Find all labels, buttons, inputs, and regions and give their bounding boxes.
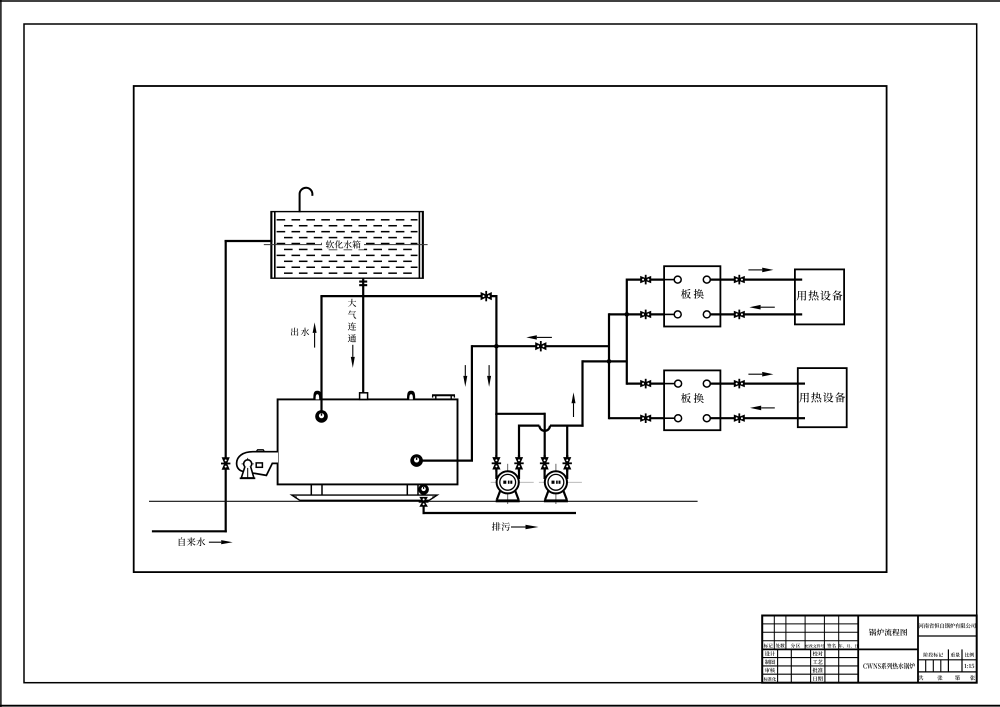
boiler safety valve dome (left) bbox=[313, 391, 321, 400]
tank water level line bbox=[264, 244, 428, 246]
arrow: HX1 return flow (left) bbox=[749, 305, 774, 310]
valve on HX2 lower-left line bbox=[640, 413, 651, 423]
heat exchanger HX1 box bbox=[664, 266, 720, 326]
tank shell (softened water tank) bbox=[271, 212, 423, 279]
wire: HX2 to equipment supply line bbox=[710, 383, 805, 385]
label 排污 bbox=[492, 522, 510, 531]
wire: supply manifold vertical bbox=[626, 279, 628, 385]
arrow: HX1 supply flow (right) bbox=[748, 268, 773, 273]
boiler outlet port (black) bbox=[315, 410, 328, 423]
label 大气连通 (vertical) bbox=[348, 299, 356, 343]
tank label 软化水箱 bbox=[322, 240, 364, 250]
wire: manifold link horizontal bbox=[583, 360, 627, 362]
title block revision table bbox=[762, 616, 858, 650]
wire: HX2 lower-left line bbox=[609, 417, 675, 419]
wire: pump suction header bbox=[495, 413, 544, 415]
HX1 ports bbox=[664, 276, 720, 318]
equipment box EQ2 用热设备 bbox=[798, 368, 847, 427]
boiler shell bbox=[278, 399, 458, 484]
valve on HX1 return line bbox=[734, 310, 745, 320]
pump P2 (circulating pump) bbox=[539, 455, 582, 504]
wire: HX1 upper-left line bbox=[627, 279, 674, 281]
junction: link x return manifold bbox=[607, 359, 612, 364]
wire: supply header horizontal bbox=[320, 295, 497, 297]
wire: pump discharge header with crossover bridge bbox=[519, 425, 584, 472]
arrow: tap water flow (right) bbox=[209, 540, 233, 544]
wire: blowdown drop bbox=[423, 506, 425, 515]
boiler top flanged nozzle bbox=[432, 395, 455, 399]
valve on tap water riser bbox=[221, 457, 230, 469]
wire: boiler inlet horizontal bbox=[417, 460, 473, 462]
arrow: HX2 return flow (left) bbox=[750, 406, 775, 411]
arrow: supply flow (up) bbox=[313, 322, 317, 347]
arrow: down flow beside supply drop bbox=[487, 365, 491, 387]
pump P2 suction valve bbox=[540, 457, 549, 469]
burner control box bbox=[256, 463, 262, 467]
title block company name bbox=[919, 623, 976, 628]
boiler base plate bbox=[292, 495, 437, 500]
valve on HX2 upper-left line bbox=[640, 379, 651, 389]
wire: boiler outlet riser 出水 bbox=[320, 296, 322, 416]
boiler return inlet port (black) bbox=[410, 454, 423, 467]
HX1 label 板换 bbox=[681, 289, 704, 299]
boiler blowdown port (black) bbox=[418, 484, 429, 495]
heat exchanger HX2 box bbox=[664, 370, 720, 430]
boiler safety valve dome (right) bbox=[407, 391, 415, 400]
wire: HX1 to equipment supply line bbox=[710, 279, 802, 281]
wire: discharge riser to manifolds bbox=[581, 360, 583, 426]
wire: return header horizontal bbox=[472, 345, 609, 347]
diagram boundary box bbox=[134, 86, 887, 572]
wire: pump1 suction drop bbox=[495, 414, 497, 472]
wire: HX1 lower-left line bbox=[609, 313, 674, 315]
title block drawing title 锅炉流程图 bbox=[869, 629, 907, 636]
arrow: blowdown flow (right) bbox=[511, 525, 539, 529]
tank bottom drain fitting bbox=[359, 281, 367, 287]
vent hook pipe on tank top bbox=[300, 188, 313, 213]
wire: atmospheric vent line (tank to boiler) bbox=[362, 278, 364, 393]
blowdown valve bbox=[419, 497, 429, 507]
valve on HX2 supply line bbox=[734, 379, 745, 389]
valve on return header bbox=[535, 341, 546, 351]
ground line bbox=[149, 500, 698, 502]
wire: pump2 suction drop bbox=[544, 413, 546, 472]
equipment box EQ1 用热设备 bbox=[795, 269, 844, 324]
wire: supply drop to pump suction bbox=[495, 295, 497, 415]
label 出水 bbox=[291, 328, 309, 336]
title block product name CWNS系列热水锅炉 bbox=[863, 663, 915, 669]
burner stand bbox=[240, 467, 256, 479]
valve on HX1 supply line bbox=[734, 275, 745, 285]
arrow: down flow beside return drop bbox=[463, 365, 467, 387]
junction: supply drop x return header bbox=[494, 344, 499, 349]
arrow: return flow (left) bbox=[526, 335, 552, 339]
tank water hatching bbox=[277, 220, 418, 273]
wire: HX2 upper-left line bbox=[627, 383, 675, 385]
arrow: up flow beside discharge riser bbox=[572, 392, 576, 417]
valve on HX1 upper-left line bbox=[640, 275, 651, 285]
burner body bbox=[237, 450, 278, 476]
wire: equipment to HX1 return line bbox=[710, 313, 802, 315]
junction: HX1 lower line x supply manifold bbox=[625, 312, 630, 317]
wire: equipment to HX2 return line bbox=[710, 417, 805, 419]
valve on supply header bbox=[481, 291, 492, 301]
arrow: vent flow (down) bbox=[351, 345, 355, 368]
arrow: HX2 supply flow (right) bbox=[748, 372, 773, 377]
valve on HX2 return line bbox=[734, 413, 745, 423]
wire: tap water top run into tank bbox=[225, 240, 273, 242]
wire: return manifold vertical bbox=[608, 313, 610, 419]
pump P1 suction valve bbox=[492, 457, 501, 469]
pump P1 discharge valve bbox=[514, 457, 523, 469]
wire: blowdown run to drain bbox=[423, 512, 577, 514]
boiler support feet bbox=[311, 484, 418, 495]
pump P1 (circulating pump) bbox=[491, 455, 534, 504]
title block scale/sheet table bbox=[918, 636, 977, 680]
HX2 ports bbox=[664, 380, 720, 422]
wire: tap water riser bbox=[225, 240, 227, 532]
boiler top vent fitting bbox=[360, 393, 368, 400]
HX2 label 板换 bbox=[681, 393, 704, 403]
burner fan circle bbox=[242, 458, 254, 470]
label 自来水 bbox=[179, 537, 206, 546]
wire: tap water inlet horizontal (bottom left) bbox=[152, 530, 227, 532]
wire: return drop to boiler inlet bbox=[471, 345, 473, 461]
title block staff table bbox=[762, 649, 858, 682]
valve on HX1 lower-left line bbox=[640, 310, 651, 320]
title block outline bbox=[762, 616, 977, 683]
pump P2 discharge valve bbox=[563, 457, 572, 469]
